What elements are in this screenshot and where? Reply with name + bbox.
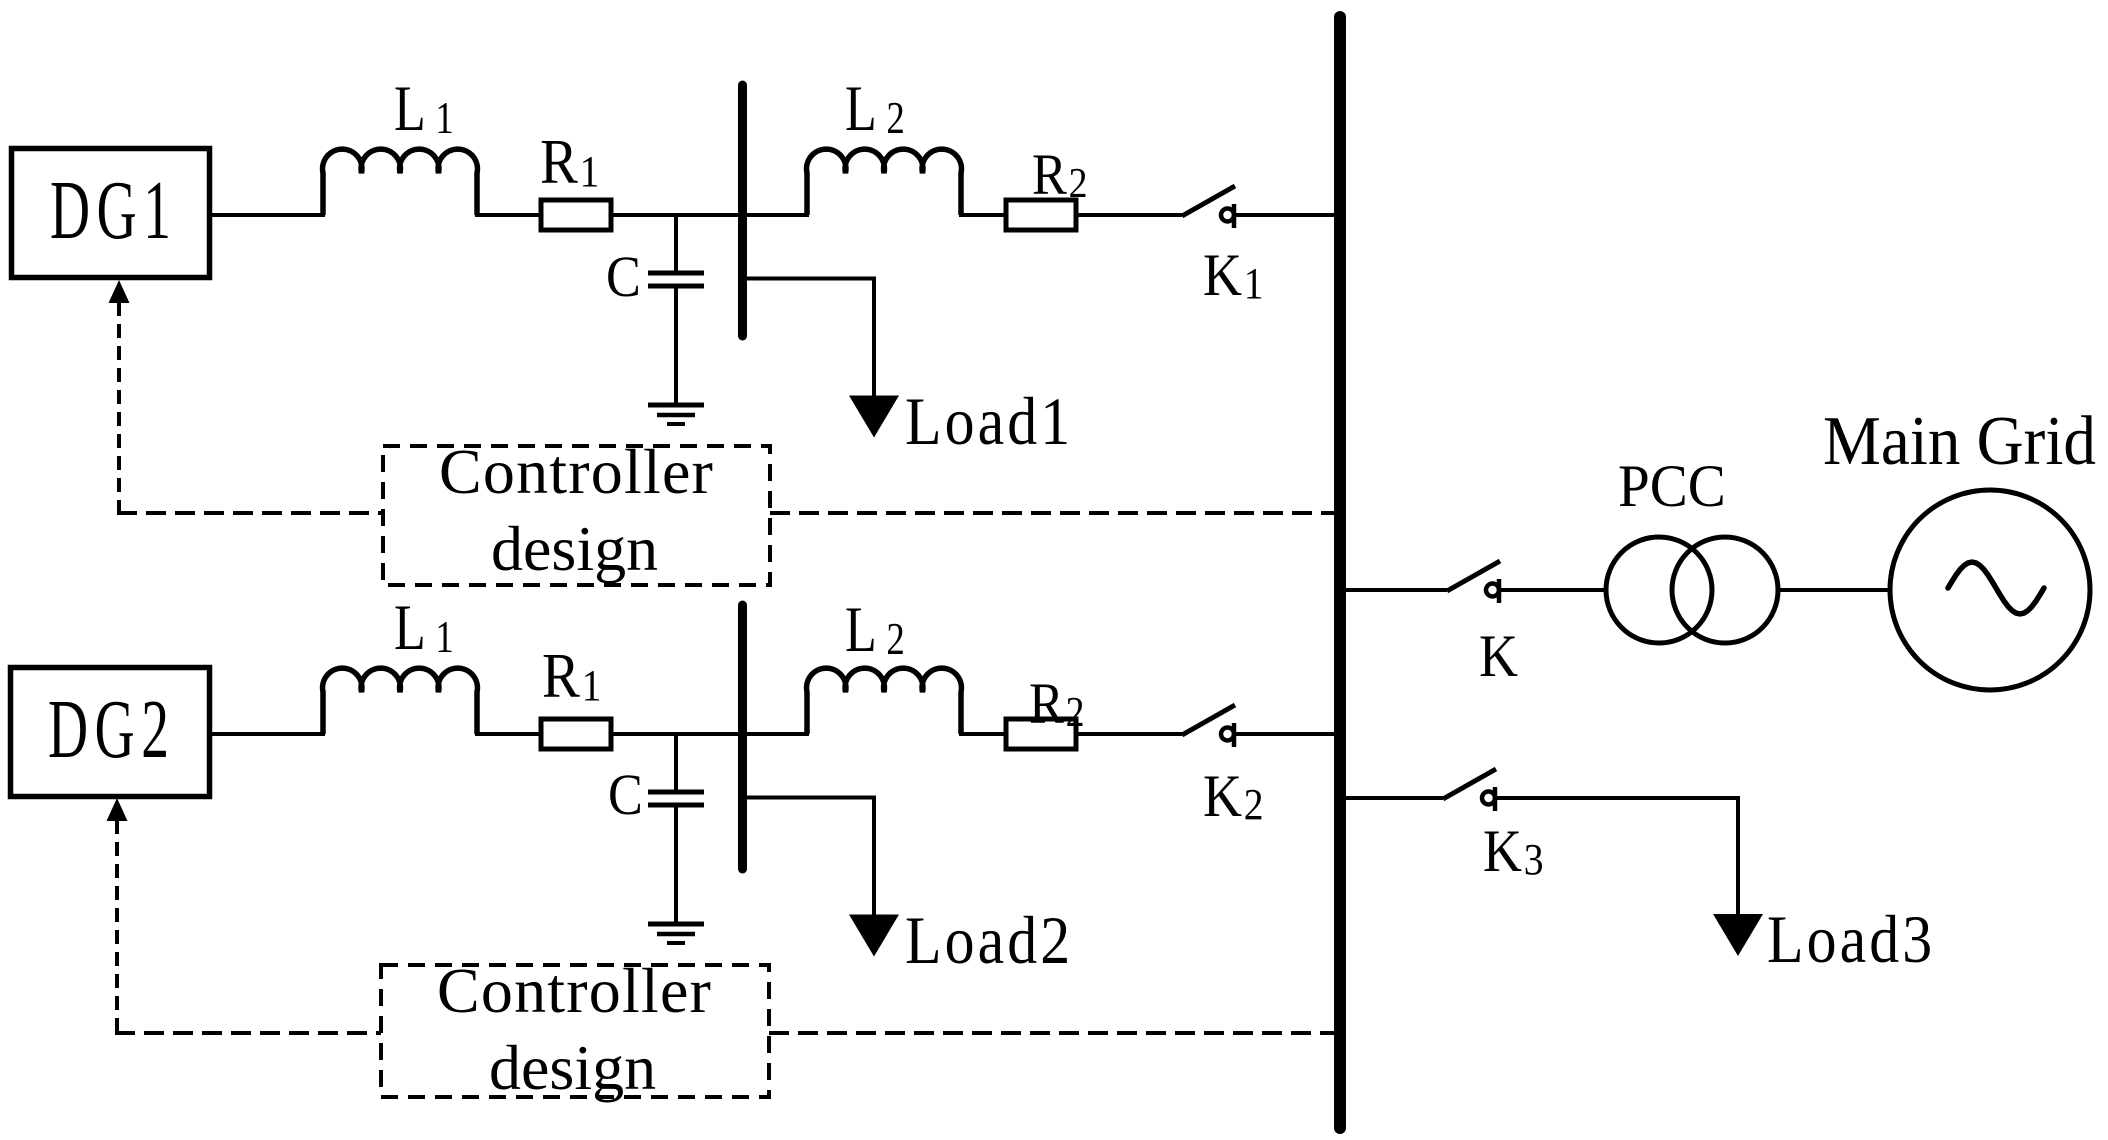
transformer PCC [1606, 537, 1778, 643]
svg-text:design: design [491, 513, 658, 584]
dashed control line DG2 vertical [115, 820, 119, 1033]
DG2 source box [11, 668, 210, 797]
controller design box 1 [383, 446, 770, 585]
resistor R2 (DG2) [1006, 719, 1076, 749]
dashed control line controller 2 to bus [769, 1031, 1336, 1035]
wire [475, 213, 543, 217]
svg-text:Main Grid: Main Grid [1823, 402, 2096, 480]
main bus [1334, 17, 1346, 1128]
capacitor C (DG2) [648, 734, 704, 923]
svg-text:Load3: Load3 [1767, 901, 1935, 976]
switch K1 [1182, 186, 1235, 228]
inductor L2 (DG2) [807, 668, 962, 734]
resistor R2 [1006, 200, 1076, 230]
capacitor C [648, 215, 704, 404]
local bus node 1 [738, 85, 747, 336]
resistor R1 [541, 200, 611, 230]
dashed control line controller 1 to bus [770, 511, 1336, 515]
control arrowhead into DG1 [109, 280, 130, 303]
DG1 source box [12, 149, 210, 278]
switch K [1447, 561, 1500, 603]
switch K3 [1443, 769, 1496, 811]
wire [1499, 588, 1608, 592]
switch K2 [1182, 705, 1235, 747]
wire [209, 213, 325, 217]
svg-text:Controller: Controller [437, 955, 712, 1026]
svg-text:Load1: Load1 [905, 383, 1073, 458]
inductor L1 (DG2) [323, 668, 478, 734]
ground [648, 924, 704, 943]
svg-text:DG2: DG2 [48, 684, 176, 776]
inductor L1 [323, 149, 478, 215]
wire [1074, 213, 1182, 217]
wire [1234, 213, 1336, 217]
dashed control line to controller 1 [117, 511, 383, 515]
wire to Load1 [743, 279, 875, 397]
wire [1344, 796, 1443, 800]
wire to Load2 [743, 798, 875, 916]
resistor R1 (DG2) [541, 719, 611, 749]
local bus node 2 [738, 605, 747, 869]
svg-text:Controller: Controller [439, 436, 714, 507]
wire [959, 732, 1008, 736]
wire to Load3 [1495, 798, 1738, 915]
dashed control line DG1 vertical [117, 302, 121, 513]
wire [1234, 732, 1336, 736]
load arrow Load2 [849, 915, 899, 957]
wire [1776, 588, 1892, 592]
inductor L2 [807, 149, 962, 215]
svg-text:DG1: DG1 [50, 165, 178, 257]
svg-text:C: C [608, 762, 643, 826]
svg-text:K: K [1479, 623, 1518, 689]
dashed control line to controller 2 [115, 1031, 381, 1035]
svg-text:C: C [606, 244, 641, 308]
wire [609, 213, 809, 217]
control arrowhead into DG2 [107, 798, 128, 821]
wire [1074, 732, 1182, 736]
wire [475, 732, 543, 736]
svg-text:Load2: Load2 [905, 902, 1073, 977]
AC source Main Grid [1890, 490, 2090, 690]
load arrow Load1 [849, 396, 899, 438]
wire [1344, 588, 1447, 592]
svg-text:design: design [489, 1032, 656, 1103]
controller design box 2 [381, 965, 769, 1097]
load arrow Load3 [1713, 914, 1763, 956]
ground [648, 405, 704, 424]
svg-text:PCC: PCC [1618, 453, 1726, 520]
wire [209, 732, 325, 736]
wire [959, 213, 1008, 217]
wire [609, 732, 809, 736]
